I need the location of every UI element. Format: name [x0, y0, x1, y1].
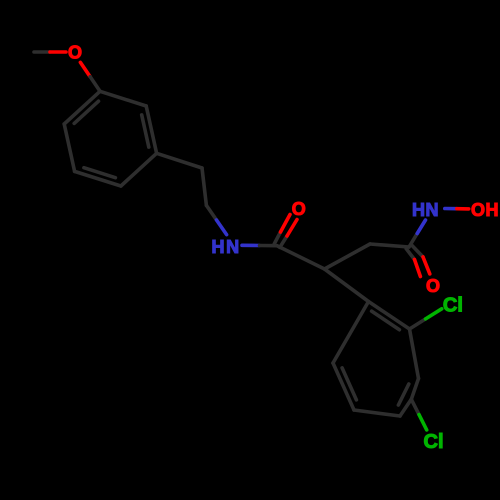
double bond C=O right carbonyl — [406, 249, 414, 260]
benzene ring 1 methoxyphenyl — [100, 91, 146, 106]
svg-text:H: H — [412, 200, 425, 220]
bond CHd-CH2e — [325, 244, 371, 269]
svg-text:O: O — [292, 199, 306, 219]
bond ring2-Cl lower — [411, 399, 419, 414]
bond C1p-CHd — [277, 246, 325, 269]
bond CHd-ring2 — [325, 269, 369, 302]
ring 2 aromatic inner lines — [372, 311, 400, 330]
bond ring2-Cl upper — [410, 319, 426, 329]
svg-text:O: O — [426, 276, 440, 296]
svg-text:O: O — [68, 43, 82, 63]
bond N-O hydroxamic — [445, 207, 457, 211]
svg-text:N: N — [426, 200, 439, 220]
bond CH2a-CH2b — [202, 168, 206, 205]
bond amideN-C1p — [242, 244, 260, 248]
bond CH2b-amideN — [206, 205, 216, 220]
svg-text:O: O — [471, 200, 485, 220]
svg-text:Cl: Cl — [424, 431, 444, 453]
svg-text:H: H — [212, 237, 225, 257]
bond CH3-O methoxy — [34, 50, 50, 54]
benzene ring 2 dichlorophenyl — [369, 302, 410, 330]
ring 1 aromatic inner lines — [142, 115, 149, 147]
bond C2p-N hydroxamic — [409, 234, 417, 248]
bond CH2e-C2p — [370, 244, 409, 247]
svg-text:H: H — [486, 200, 499, 220]
double bond C=O left carbonyl — [274, 232, 280, 244]
bond O-C1 methoxy to ring — [80, 62, 90, 76]
svg-text:N: N — [226, 237, 239, 257]
svg-text:Cl: Cl — [443, 295, 463, 317]
bond ring1-CH2a — [157, 153, 202, 168]
